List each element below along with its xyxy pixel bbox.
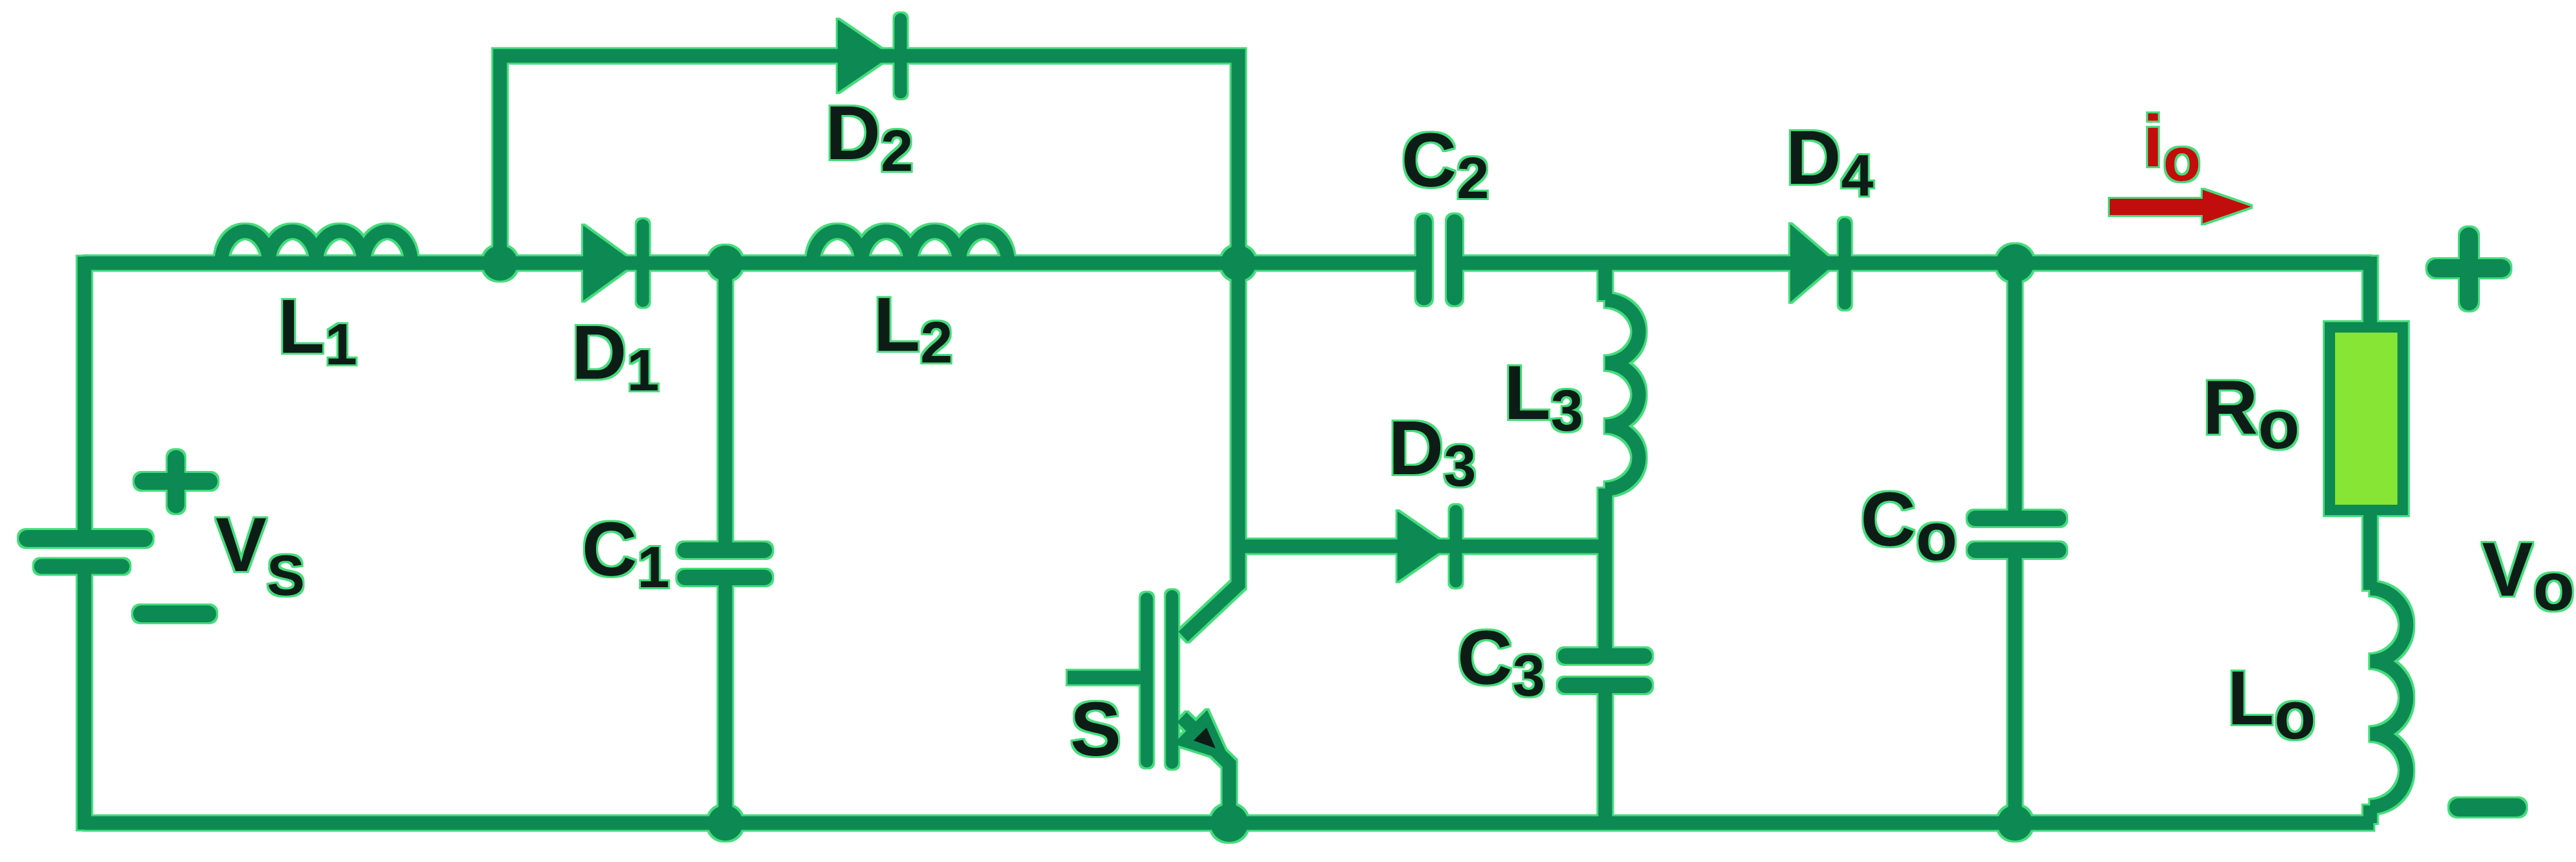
svg-text:L2: L2 [873,282,953,375]
svg-text:L3: L3 [1504,350,1583,444]
svg-text:C1: C1 [582,507,669,600]
svg-text:C3: C3 [1457,615,1545,709]
svg-text:D4: D4 [1786,115,1873,209]
svg-text:D3: D3 [1388,405,1476,499]
svg-text:D2: D2 [825,90,913,184]
svg-text:S: S [1070,687,1121,772]
svg-text:VS: VS [216,502,305,607]
svg-text:L1: L1 [278,284,357,377]
svg-text:Lo: Lo [2227,655,2316,754]
svg-text:C2: C2 [1401,118,1489,211]
svg-text:io: io [2143,101,2201,194]
svg-text:Ro: Ro [2203,365,2299,463]
svg-text:D1: D1 [571,310,659,403]
svg-text:Vo: Vo [2482,527,2575,625]
svg-text:Co: Co [1860,477,1957,575]
